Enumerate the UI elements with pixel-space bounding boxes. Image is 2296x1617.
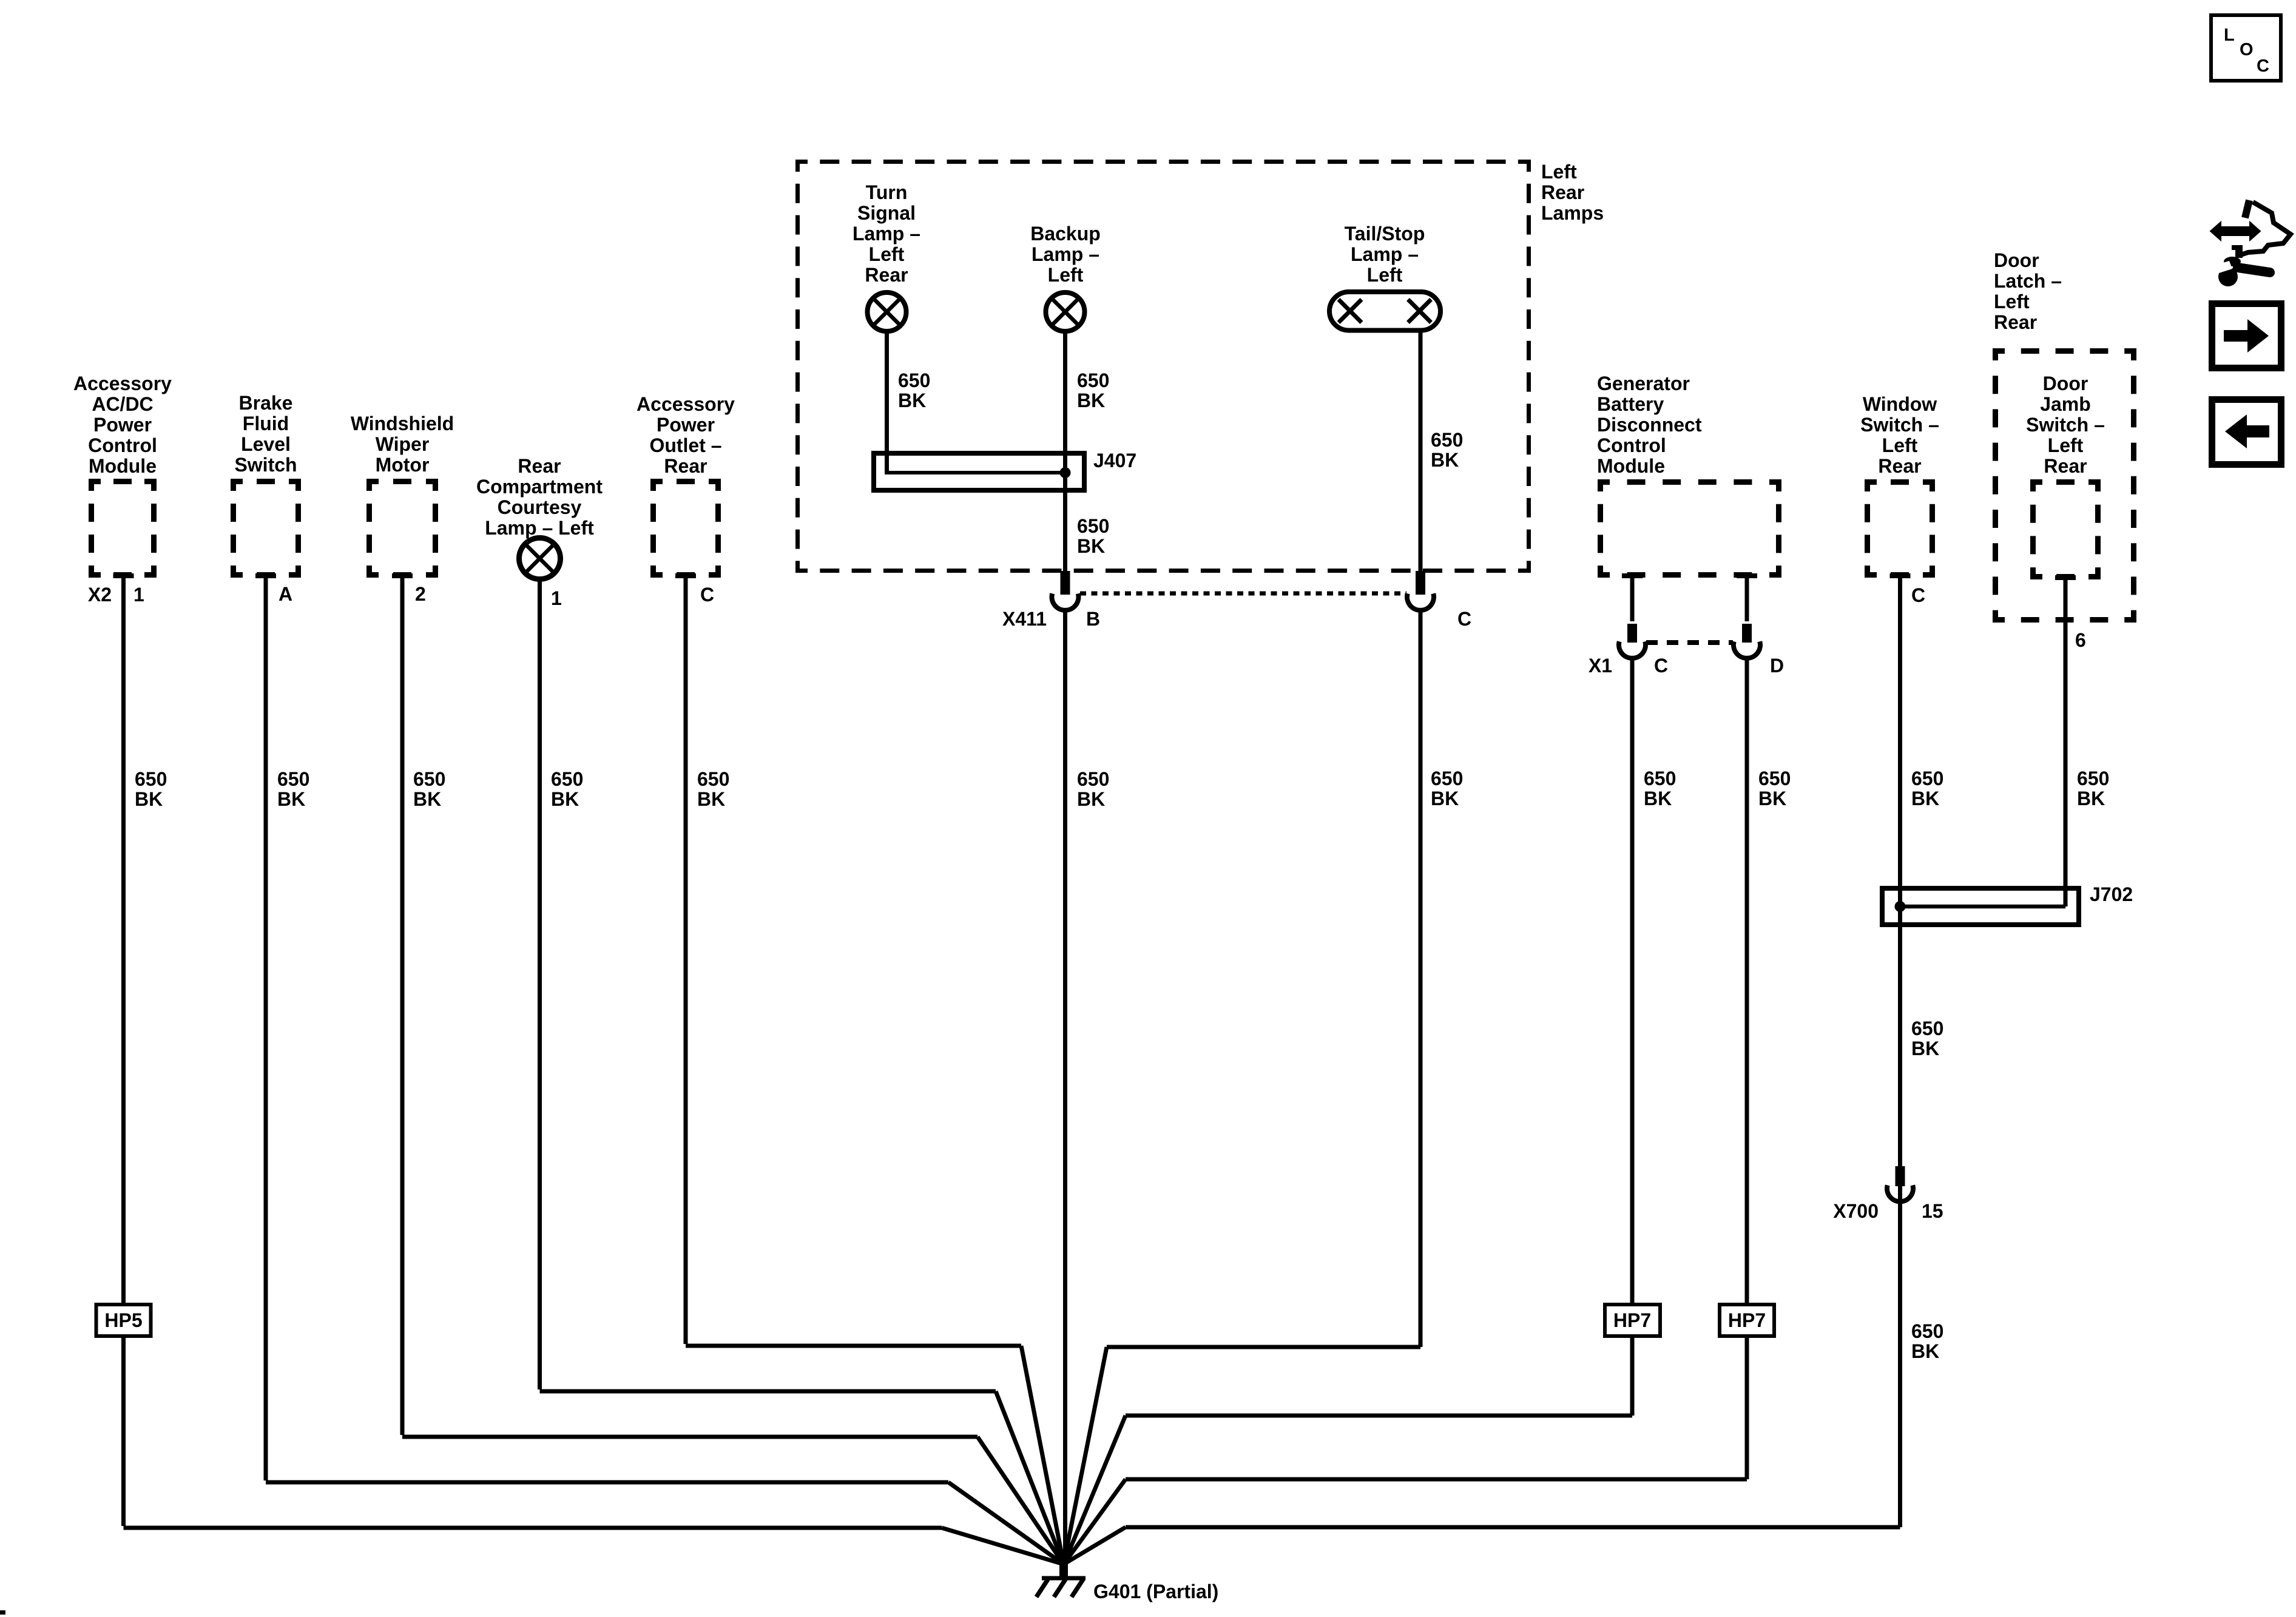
svg-text:BK: BK <box>277 788 305 810</box>
svg-text:1: 1 <box>133 584 144 606</box>
svg-text:Compartment: Compartment <box>476 476 603 498</box>
svg-text:BK: BK <box>1911 788 1939 809</box>
svg-text:C: C <box>1654 655 1668 677</box>
svg-text:Left: Left <box>2048 434 2084 456</box>
svg-text:BK: BK <box>413 788 441 810</box>
svg-text:BK: BK <box>1077 788 1105 810</box>
svg-text:X2: X2 <box>88 584 112 606</box>
svg-text:650: 650 <box>551 768 583 790</box>
svg-text:Left: Left <box>1541 161 1577 183</box>
svg-text:BK: BK <box>1431 788 1459 809</box>
svg-text:C: C <box>2257 56 2269 76</box>
svg-text:650: 650 <box>697 768 729 790</box>
svg-text:C: C <box>1911 584 1925 606</box>
svg-text:AC/DC: AC/DC <box>92 393 153 415</box>
svg-text:Rear: Rear <box>664 455 707 477</box>
svg-text:Accessory: Accessory <box>636 393 735 415</box>
svg-text:Rear: Rear <box>1541 181 1584 203</box>
svg-text:BK: BK <box>1911 1340 1939 1362</box>
svg-text:L: L <box>2224 25 2235 45</box>
svg-text:650: 650 <box>1758 768 1791 789</box>
svg-text:G401 (Partial): G401 (Partial) <box>1093 1581 1218 1602</box>
svg-text:Wiper: Wiper <box>376 433 430 455</box>
svg-text:A: A <box>279 583 292 605</box>
svg-text:Rear: Rear <box>1994 311 2037 333</box>
svg-text:BK: BK <box>135 788 163 810</box>
svg-text:BK: BK <box>1758 788 1786 809</box>
svg-text:X411: X411 <box>1002 608 1047 630</box>
svg-text:650: 650 <box>1911 1320 1943 1342</box>
svg-text:15: 15 <box>1922 1200 1943 1222</box>
svg-text:Jamb: Jamb <box>2040 393 2091 415</box>
svg-text:Left: Left <box>869 243 905 265</box>
svg-text:Switch –: Switch – <box>2026 414 2105 436</box>
svg-text:BK: BK <box>1431 449 1459 471</box>
svg-text:650: 650 <box>1911 768 1943 789</box>
svg-text:BK: BK <box>697 788 725 810</box>
svg-text:J702: J702 <box>2090 883 2133 905</box>
svg-text:Tail/Stop: Tail/Stop <box>1345 223 1425 245</box>
svg-text:BK: BK <box>1644 788 1672 809</box>
svg-text:Door: Door <box>2043 373 2088 394</box>
svg-text:Generator: Generator <box>1597 373 1690 394</box>
svg-text:BK: BK <box>898 390 926 411</box>
svg-text:Power: Power <box>657 414 715 436</box>
svg-text:Module: Module <box>89 455 157 477</box>
svg-text:Lamps: Lamps <box>1541 202 1604 224</box>
svg-text:Lamp –: Lamp – <box>1032 243 1099 265</box>
svg-text:Left: Left <box>1048 264 1084 286</box>
svg-text:650: 650 <box>1431 768 1463 789</box>
svg-text:O: O <box>2240 40 2254 59</box>
svg-text:650: 650 <box>1911 1018 1943 1039</box>
svg-text:BK: BK <box>551 788 579 810</box>
svg-text:C: C <box>700 584 714 606</box>
svg-text:Disconnect: Disconnect <box>1597 414 1702 436</box>
svg-text:HP7: HP7 <box>1613 1309 1651 1331</box>
svg-text:650: 650 <box>898 370 930 391</box>
svg-text:Outlet –: Outlet – <box>649 434 721 456</box>
svg-text:6: 6 <box>2075 629 2086 651</box>
svg-text:2: 2 <box>415 583 426 605</box>
svg-text:Rear: Rear <box>518 455 561 477</box>
svg-text:Module: Module <box>1597 455 1665 477</box>
svg-text:650: 650 <box>2077 768 2109 789</box>
svg-text:HP5: HP5 <box>104 1309 142 1331</box>
svg-text:Control: Control <box>1597 434 1666 456</box>
svg-text:BK: BK <box>1077 390 1105 411</box>
svg-text:Power: Power <box>93 414 152 436</box>
svg-text:650: 650 <box>413 768 445 790</box>
svg-text:Fluid: Fluid <box>243 413 289 434</box>
svg-text:Battery: Battery <box>1597 393 1664 415</box>
svg-text:Switch: Switch <box>234 454 297 476</box>
svg-text:HP7: HP7 <box>1728 1309 1766 1331</box>
svg-text:650: 650 <box>135 768 167 790</box>
svg-text:650: 650 <box>1077 515 1109 537</box>
svg-text:Level: Level <box>241 433 291 455</box>
svg-text:X700: X700 <box>1833 1200 1879 1222</box>
svg-text:BK: BK <box>1911 1038 1939 1059</box>
svg-text:Left: Left <box>1882 434 1918 456</box>
svg-text:Courtesy: Courtesy <box>498 496 582 518</box>
svg-text:Latch –: Latch – <box>1994 270 2062 292</box>
svg-text:BK: BK <box>2077 788 2105 809</box>
svg-text:Switch –: Switch – <box>1860 414 1939 436</box>
svg-text:650: 650 <box>277 768 309 790</box>
svg-text:Turn: Turn <box>866 181 908 203</box>
svg-text:C: C <box>1457 608 1471 630</box>
svg-text:J407: J407 <box>1093 450 1136 471</box>
svg-text:D: D <box>1770 655 1784 677</box>
svg-text:Left: Left <box>1367 264 1403 286</box>
svg-text:Brake: Brake <box>239 392 293 414</box>
svg-text:Signal: Signal <box>857 202 916 224</box>
svg-text:B: B <box>1086 608 1100 630</box>
svg-text:BK: BK <box>1077 535 1105 557</box>
svg-text:Rear: Rear <box>865 264 908 286</box>
svg-text:Rear: Rear <box>2044 455 2087 477</box>
svg-text:Rear: Rear <box>1878 455 1921 477</box>
svg-text:650: 650 <box>1077 768 1109 790</box>
svg-text:650: 650 <box>1644 768 1676 789</box>
svg-text:Door: Door <box>1994 249 2039 271</box>
svg-text:650: 650 <box>1431 429 1463 451</box>
svg-text:Lamp –: Lamp – <box>1351 243 1419 265</box>
svg-text:Lamp –: Lamp – <box>853 223 920 245</box>
svg-text:Backup: Backup <box>1030 223 1101 245</box>
svg-text:1: 1 <box>551 587 562 609</box>
svg-text:Window: Window <box>1863 393 1937 415</box>
svg-text:650: 650 <box>1077 370 1109 391</box>
svg-text:Left: Left <box>1994 291 2030 312</box>
svg-text:Control: Control <box>88 434 157 456</box>
svg-text:Windshield: Windshield <box>351 413 454 434</box>
svg-text:X1: X1 <box>1589 655 1612 677</box>
svg-text:Accessory: Accessory <box>73 373 172 394</box>
svg-text:Motor: Motor <box>376 454 430 476</box>
